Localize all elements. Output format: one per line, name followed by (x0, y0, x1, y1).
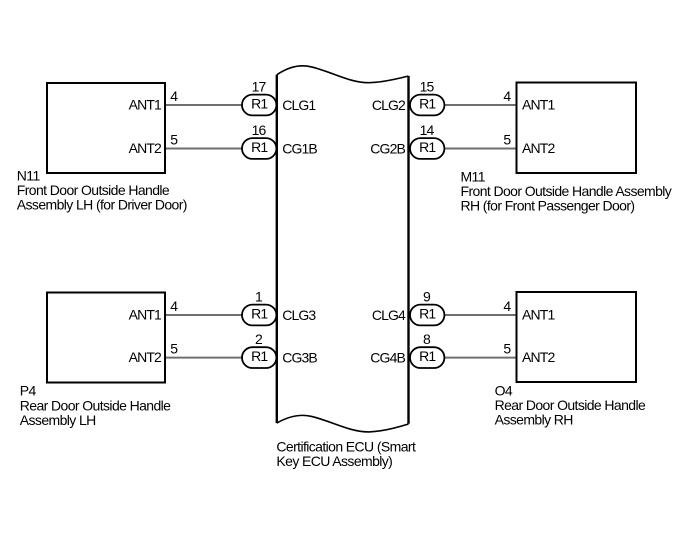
svg-text:Key ECU Assembly): Key ECU Assembly) (276, 453, 392, 469)
svg-text:ANT1: ANT1 (522, 96, 555, 112)
svg-text:R1: R1 (419, 139, 436, 155)
svg-text:CG4B: CG4B (370, 349, 405, 365)
ECU top wavy edge (277, 66, 409, 83)
svg-text:ANT2: ANT2 (522, 349, 555, 365)
svg-text:M11: M11 (461, 169, 486, 185)
svg-text:Rear Door Outside Handle: Rear Door Outside Handle (495, 397, 646, 413)
svg-text:14: 14 (420, 122, 435, 138)
svg-text:N11: N11 (17, 167, 41, 183)
svg-text:CG1B: CG1B (282, 140, 317, 156)
connector box O4 Rear Door Outside Handle Assembly RH (517, 292, 637, 382)
svg-text:ANT1: ANT1 (129, 96, 162, 112)
oval noise filter R1 at CLG4 pin 9 (410, 305, 444, 326)
svg-text:R1: R1 (251, 96, 268, 112)
svg-text:4: 4 (503, 298, 511, 314)
svg-text:R1: R1 (251, 348, 268, 364)
svg-text:CLG3: CLG3 (282, 307, 316, 323)
svg-text:Assembly RH: Assembly RH (495, 412, 573, 428)
svg-text:9: 9 (423, 288, 431, 304)
wire P4 ANT2 to R1 pin 2 (165, 357, 246, 359)
svg-text:ANT2: ANT2 (129, 349, 162, 365)
svg-text:R1: R1 (251, 306, 268, 322)
connector box M11 Front Door Outside Handle Assembly RH (517, 83, 637, 174)
oval noise filter R1 at CG2B pin 14 (410, 138, 444, 159)
svg-text:Front Door Outside Handle Asse: Front Door Outside Handle Assembly (461, 183, 672, 199)
svg-text:R1: R1 (251, 139, 268, 155)
svg-text:Rear Door Outside Handle: Rear Door Outside Handle (20, 397, 171, 413)
svg-text:CLG2: CLG2 (372, 97, 406, 113)
svg-text:ANT2: ANT2 (129, 140, 162, 156)
wire R1 pin 9 to O4 ANT1 (441, 314, 517, 316)
connector box P4 Rear Door Outside Handle Assembly LH (47, 293, 165, 383)
svg-text:ANT1: ANT1 (522, 306, 555, 322)
wire N11 ANT2 to R1 pin 16 (165, 148, 246, 150)
oval noise filter R1 at CLG3 pin 1 (242, 305, 276, 326)
svg-text:R1: R1 (419, 306, 436, 322)
oval noise filter R1 at CG1B pin 16 (242, 138, 276, 159)
svg-text:Assembly LH: Assembly LH (20, 412, 96, 428)
svg-text:17: 17 (252, 78, 267, 94)
svg-text:4: 4 (170, 88, 178, 104)
svg-text:CLG4: CLG4 (372, 307, 406, 323)
svg-text:ANT1: ANT1 (129, 306, 162, 322)
svg-text:ANT2: ANT2 (522, 140, 555, 156)
wire R1 pin 15 to M11 ANT1 (441, 104, 517, 106)
svg-text:R1: R1 (419, 348, 436, 364)
wire R1 pin 14 to M11 ANT2 (441, 148, 517, 150)
wire P4 ANT1 to R1 pin 1 (165, 314, 246, 316)
svg-text:5: 5 (170, 340, 178, 356)
svg-text:1: 1 (255, 288, 263, 304)
oval noise filter R1 at CG4B pin 8 (410, 347, 444, 368)
oval noise filter R1 at CLG1 pin 17 (242, 95, 276, 116)
svg-text:CG3B: CG3B (282, 349, 317, 365)
svg-text:16: 16 (252, 122, 267, 138)
ECU left edge (276, 75, 278, 423)
wire R1 pin 8 to O4 ANT2 (441, 357, 517, 359)
svg-text:R1: R1 (419, 96, 436, 112)
svg-text:Assembly LH (for Driver Door): Assembly LH (for Driver Door) (17, 197, 187, 213)
ECU right edge (407, 76, 409, 424)
svg-text:P4: P4 (20, 383, 37, 399)
svg-text:Front Door Outside Handle: Front Door Outside Handle (17, 182, 170, 198)
svg-text:RH (for Front Passenger Door): RH (for Front Passenger Door) (461, 198, 635, 214)
svg-text:5: 5 (503, 131, 511, 147)
wire N11 ANT1 to R1 pin 17 (165, 104, 246, 106)
svg-text:4: 4 (503, 88, 511, 104)
svg-text:8: 8 (423, 331, 431, 347)
ECU bottom wavy edge (277, 415, 409, 432)
connector box N11 Front Door Outside Handle Assembly LH (47, 83, 165, 173)
svg-text:Certification ECU (Smart: Certification ECU (Smart (276, 438, 416, 454)
svg-text:5: 5 (170, 131, 178, 147)
svg-text:2: 2 (255, 331, 263, 347)
svg-text:CG2B: CG2B (370, 140, 405, 156)
oval noise filter R1 at CG3B pin 2 (242, 347, 276, 368)
oval noise filter R1 at CLG2 pin 15 (410, 95, 444, 116)
svg-text:5: 5 (503, 340, 511, 356)
svg-text:O4: O4 (495, 383, 513, 399)
svg-text:CLG1: CLG1 (282, 97, 316, 113)
svg-text:4: 4 (170, 298, 178, 314)
svg-text:15: 15 (420, 78, 435, 94)
